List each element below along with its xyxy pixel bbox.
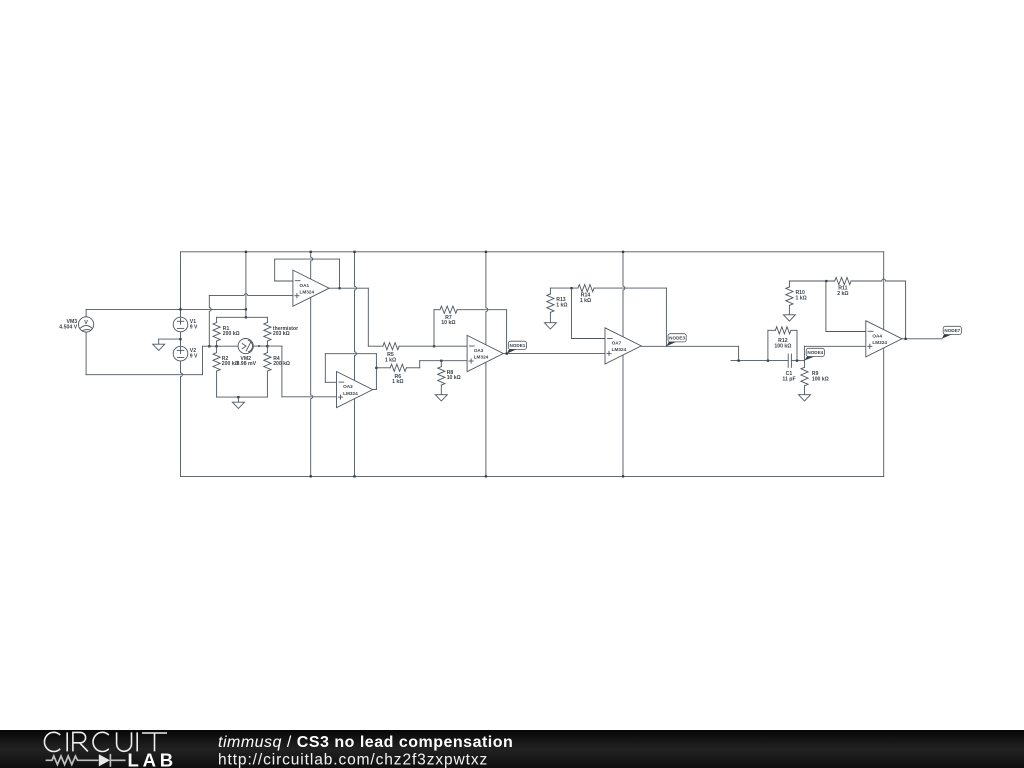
junction bridge top node	[245, 316, 247, 318]
wire OA2 output	[373, 389, 377, 391]
wire bridge feed from top rail	[245, 252, 247, 317]
wire bridge mid-left	[203, 345, 239, 347]
op-amp OA2 power stub top	[355, 252, 357, 381]
svg-text:1 kΩ: 1 kΩ	[796, 296, 807, 302]
voltmeter VM2	[238, 339, 253, 354]
svg-text:0.98 mV: 0.98 mV	[236, 361, 256, 367]
svg-text:http://circuitlab.com/chz2f3zx: http://circuitlab.com/chz2f3zxpwtxz	[218, 752, 488, 768]
thermistor	[266, 317, 268, 322]
svg-text:OA1: OA1	[300, 283, 310, 288]
ground at R8	[435, 395, 447, 401]
wire top supply rail	[181, 251, 884, 253]
resistor R10	[788, 281, 790, 287]
op-amp OA3 power stub bottom	[485, 362, 487, 476]
wire VM2 right to bridge mid-right	[253, 345, 282, 347]
resistor R7	[433, 310, 435, 347]
svg-text:9 V: 9 V	[190, 324, 198, 330]
wire bridge mid-right to OA2 plus	[281, 346, 283, 397]
wire R14 to OA7 output	[665, 288, 667, 346]
svg-text:1 kΩ: 1 kΩ	[556, 303, 567, 309]
svg-text:LM324: LM324	[300, 289, 315, 294]
wire bridge top	[217, 316, 268, 318]
svg-text:200 kΩ: 200 kΩ	[222, 361, 239, 367]
op-amp OA1 power stub top	[311, 252, 313, 279]
wire OA7 minus input	[572, 338, 606, 340]
ground at R10	[783, 315, 795, 321]
junction bridge bottom node	[237, 396, 239, 398]
wire ground stub of V1/V2 midpoint	[159, 338, 181, 340]
node flag NODE4	[804, 357, 814, 361]
wire R13 top to R14	[550, 287, 578, 289]
resistor R12	[767, 330, 769, 360]
resistor R11	[835, 277, 851, 284]
svg-text:VM3: VM3	[67, 319, 78, 325]
wire V1-V2 junction segment	[180, 332, 182, 347]
junction VM3 wire at bridge feed	[245, 308, 247, 310]
wire left rail V1 top	[180, 252, 182, 317]
svg-text:200 kΩ: 200 kΩ	[223, 331, 240, 337]
svg-text:LM324: LM324	[343, 391, 358, 396]
wire bottom supply rail	[181, 475, 884, 477]
svg-text:OA3: OA3	[474, 348, 484, 353]
resistor R8	[440, 361, 442, 367]
op-amp OA3 power stub top	[486, 252, 488, 345]
svg-text:100 kΩ: 100 kΩ	[774, 343, 791, 349]
resistor R13	[549, 288, 551, 294]
svg-text:LM324: LM324	[474, 355, 489, 360]
junction VM3 wire at V1 rail	[179, 308, 181, 310]
junction OA2 output-R6 node	[375, 367, 377, 369]
svg-text:11 pF: 11 pF	[782, 376, 795, 382]
wire OA1 output	[329, 287, 368, 289]
voltage source V2	[173, 346, 188, 361]
junction bridge feed at top rail	[245, 251, 247, 253]
resistor R14	[578, 285, 594, 292]
junction OA1 plus tap	[208, 345, 210, 347]
voltmeter VM3	[79, 317, 94, 332]
svg-text:LAB: LAB	[128, 749, 177, 768]
junction R1-R2 node	[215, 345, 217, 347]
wire right rail lower (OA4 V-)	[883, 348, 885, 477]
op-amp OA7	[605, 328, 641, 364]
svg-text:1 kΩ: 1 kΩ	[392, 379, 403, 385]
svg-text:2 kΩ: 2 kΩ	[837, 291, 848, 297]
capacitor C1	[787, 354, 789, 367]
junction R7-output node	[506, 353, 508, 355]
wire R5 to OA3 minus	[434, 345, 467, 347]
wire OA4 output	[902, 338, 942, 340]
wire VM3 minus to bridge left node	[85, 332, 87, 375]
op-amp OA7 power stub bottom	[622, 355, 624, 476]
CircuitLab logo resistor-diode glyph	[46, 754, 126, 767]
op-amp OA4	[866, 321, 902, 357]
bottom bar background	[0, 730, 1024, 768]
svg-text:10 kΩ: 10 kΩ	[441, 320, 455, 326]
svg-text:OA7: OA7	[612, 341, 622, 346]
svg-text:timmusq / CS3 no lead compensa: timmusq / CS3 no lead compensation	[218, 734, 513, 751]
junction V1-V2 midpoint	[179, 338, 181, 340]
svg-text:1 kΩ: 1 kΩ	[580, 298, 591, 304]
svg-text:LM324: LM324	[612, 347, 627, 352]
svg-text:LM324: LM324	[872, 340, 887, 345]
wire NODE4 riser to OA4 plus	[803, 346, 805, 360]
wire OA1 feedback	[275, 280, 293, 282]
resistor R6	[376, 367, 390, 369]
junction thermistor-R4 node	[266, 345, 268, 347]
op-amp OA2	[337, 372, 373, 408]
svg-text:4.504 V: 4.504 V	[59, 325, 77, 331]
wire OA4 minus input	[826, 331, 866, 333]
junction R8 tap	[440, 360, 442, 362]
svg-text:9 V: 9 V	[190, 354, 198, 360]
resistor R9	[804, 361, 806, 368]
wire R11 to OA4 output	[905, 281, 907, 339]
svg-text:NODE1: NODE1	[509, 343, 525, 348]
junction R12 right	[796, 360, 798, 362]
ground at V1/V2 midpoint	[153, 344, 165, 350]
wire V2 bottom to rail	[181, 361, 183, 476]
op-amp OA1 power stub bottom	[311, 297, 313, 476]
wire R6 jog to OA3 plus	[420, 360, 467, 362]
ground at bridge bottom	[232, 402, 244, 408]
op-amp OA7 power stub top	[623, 252, 625, 337]
wire right rail upper (OA4 V+)	[883, 252, 885, 330]
CircuitLab logo wordmark	[44, 732, 167, 751]
resistor R4	[266, 346, 268, 353]
junction OA7 jog	[738, 360, 740, 362]
svg-text:V2: V2	[190, 348, 196, 354]
svg-text:V1: V1	[190, 319, 196, 325]
resistor R2	[216, 346, 218, 352]
node flag NODE7	[942, 335, 952, 339]
wire C1 node segment	[731, 360, 788, 362]
voltage source V1	[173, 317, 188, 332]
wire VM3 plus to rail	[85, 309, 87, 316]
junction R5-R7 node	[433, 345, 435, 347]
wire OA3 output to OA7 plus	[503, 353, 605, 355]
node flag NODE1	[507, 349, 517, 353]
wire OA2 feedback loop	[325, 381, 336, 383]
svg-text:OA2: OA2	[343, 384, 353, 389]
svg-text:NODE3: NODE3	[669, 336, 685, 341]
op-amp OA2 power stub bottom	[354, 398, 356, 476]
svg-text:NODE7: NODE7	[944, 328, 960, 333]
svg-text:NODE4: NODE4	[807, 350, 823, 355]
op-amp OA1	[293, 270, 329, 306]
wire OA7 output	[641, 345, 738, 347]
wire bridge ground stub	[237, 397, 239, 402]
wire OA1 plus input	[209, 294, 293, 296]
resistor R5	[368, 345, 383, 347]
op-amp OA3	[467, 335, 503, 371]
node flag NODE3	[666, 342, 676, 346]
svg-text:1 kΩ: 1 kΩ	[385, 358, 396, 364]
wire R10 to R11	[789, 280, 834, 282]
svg-text:OA4: OA4	[872, 333, 882, 338]
junction OA1 feedback-output	[338, 287, 340, 289]
ground at R13	[544, 323, 556, 329]
wire bridge bottom	[217, 396, 268, 398]
junction R13-R14 node	[570, 287, 572, 289]
ground at R9	[799, 395, 811, 401]
svg-text:203 kΩ: 203 kΩ	[273, 331, 290, 337]
junction R11-output node	[905, 338, 907, 340]
junction R12 left	[767, 360, 769, 362]
junction R10-R11 node	[825, 280, 827, 282]
svg-text:10 kΩ: 10 kΩ	[447, 375, 461, 381]
resistor R1	[216, 317, 218, 322]
svg-text:100 kΩ: 100 kΩ	[812, 376, 829, 382]
